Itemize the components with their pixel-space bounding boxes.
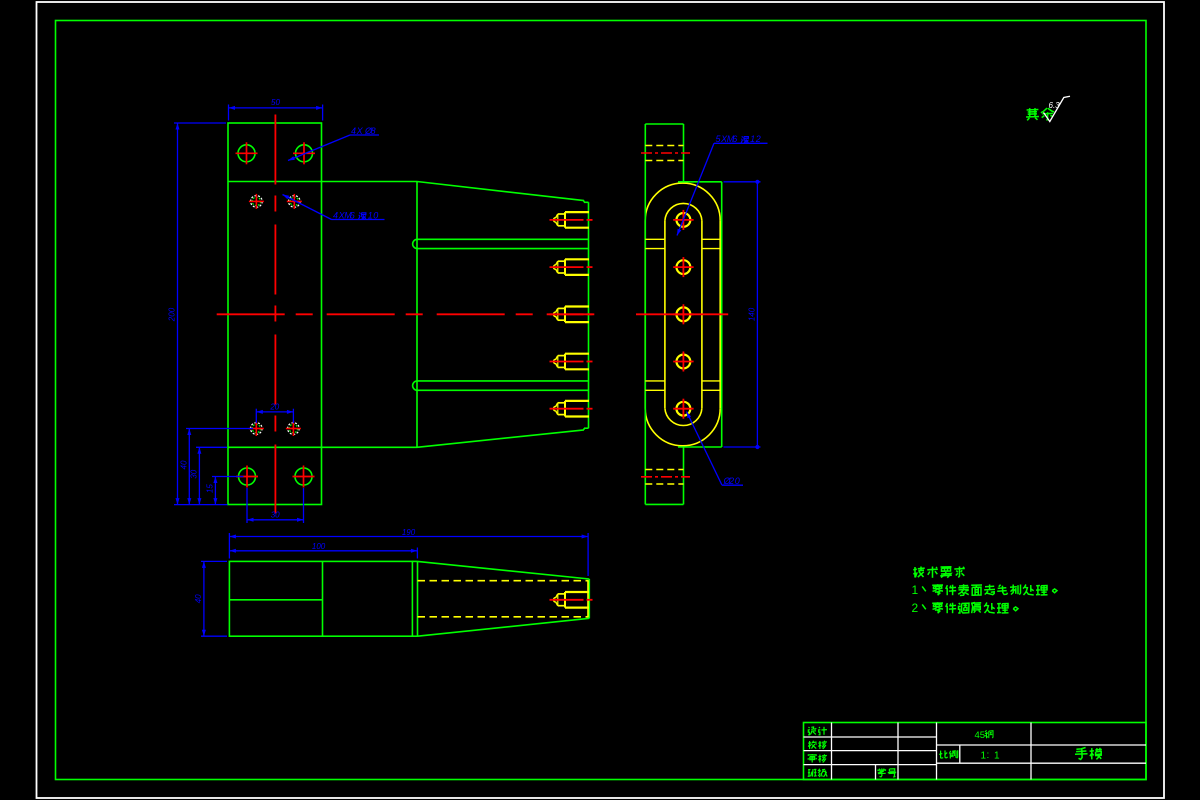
svg-text:45: 45: [975, 730, 986, 741]
svg-text:2: 2: [912, 601, 919, 615]
svg-text:X: X: [356, 126, 364, 136]
svg-text:6: 6: [732, 134, 737, 144]
svg-text:40: 40: [194, 594, 203, 603]
svg-text:200: 200: [168, 307, 177, 322]
svg-text:4: 4: [351, 126, 356, 136]
svg-text:0: 0: [373, 210, 378, 220]
svg-text:4: 4: [333, 210, 338, 220]
svg-text:2: 2: [755, 134, 761, 144]
svg-text:15: 15: [205, 484, 214, 493]
svg-text:6.3: 6.3: [1049, 101, 1061, 110]
svg-text:2: 2: [728, 476, 734, 486]
svg-text:6: 6: [350, 210, 355, 220]
svg-text:30: 30: [189, 469, 198, 478]
svg-text::: :: [987, 750, 990, 761]
svg-text:1: 1: [994, 750, 1000, 761]
svg-text:1: 1: [368, 210, 373, 220]
svg-text:30: 30: [271, 510, 280, 519]
svg-text:190: 190: [402, 528, 416, 537]
svg-text:1: 1: [912, 583, 919, 597]
svg-text:100: 100: [312, 542, 326, 551]
svg-text:0: 0: [735, 476, 740, 486]
svg-text:20: 20: [269, 402, 279, 411]
svg-text:8: 8: [371, 126, 376, 136]
svg-text:1: 1: [750, 134, 755, 144]
svg-text:140: 140: [747, 307, 756, 321]
svg-text:40: 40: [179, 460, 188, 469]
svg-text:50: 50: [271, 98, 280, 107]
